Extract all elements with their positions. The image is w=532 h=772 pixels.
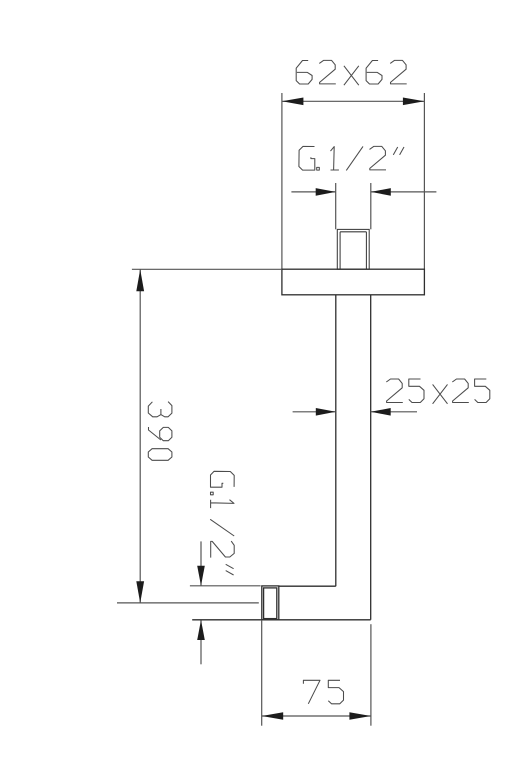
top threaded fitting G.1/2 [337, 229, 369, 269]
horizontal arm top edge [279, 585, 336, 587]
label 75 [303, 680, 343, 704]
extension line right of flange width [423, 93, 425, 269]
dimension G.1/2 top right arrow [371, 188, 437, 196]
dimension 25x25 left arrow [293, 408, 336, 416]
dimension 25x25 right arrow [371, 408, 417, 416]
label G.1/2 inch top [299, 146, 404, 170]
label G.1/2 inch bottom (rotated) [210, 471, 234, 575]
dimension 75 extension line left [261, 620, 263, 726]
dimension G.1/2 bottom lower arrow [197, 620, 205, 664]
vertical square tube left wall [335, 295, 337, 586]
label 390 (rotated) [148, 402, 172, 461]
vertical square tube right wall [370, 295, 372, 620]
wall flange plate 62x62 [282, 269, 425, 295]
bottom threaded fitting G.1/2 [262, 586, 279, 620]
horizontal arm bottom edge [192, 619, 371, 621]
dimension G.1/2 bottom upper arrow [197, 541, 205, 585]
extension line at bottom fitting top [190, 585, 261, 587]
dimension 390 line with arrows [136, 269, 144, 603]
extension line right of top thread [370, 183, 372, 229]
label 25x25 [386, 379, 490, 404]
dimension 62x62 label [296, 60, 407, 85]
dimension 75 line with arrows [262, 712, 371, 720]
dimension 62x62 line with arrows [282, 98, 425, 106]
extension line left of top thread [335, 183, 337, 229]
centerline of bottom outlet [117, 602, 259, 604]
dimension 390 top extension line [132, 268, 282, 270]
dimension G.1/2 top left arrow [291, 188, 335, 196]
dimension 75 extension line right [370, 624, 372, 726]
extension line left of flange width [281, 93, 283, 269]
